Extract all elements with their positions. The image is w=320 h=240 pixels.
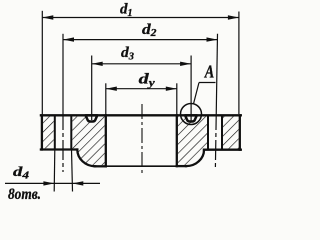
hatching right hub region bbox=[178, 117, 207, 165]
d2 extension / bolt axis left bbox=[62, 34, 64, 110]
right bolt hole walls bbox=[208, 115, 222, 149]
d4 right arrow (points left) bbox=[72, 181, 83, 185]
d3 right arrow bbox=[180, 62, 191, 66]
hub bottom, right bbox=[177, 165, 186, 167]
dy extension right bbox=[176, 83, 178, 114]
leader to A bbox=[194, 83, 216, 104]
d4 extension left bbox=[53, 150, 56, 192]
svg-text:A: A bbox=[204, 62, 214, 82]
svg-text:8отв.: 8отв. bbox=[8, 186, 41, 203]
dy right arrow bbox=[166, 87, 177, 91]
left fillet bbox=[77, 150, 95, 167]
left outer edge bbox=[41, 115, 43, 149]
dimension dy line bbox=[106, 83, 177, 114]
d4 left arrow (points right) bbox=[43, 181, 54, 185]
d3 extension right bbox=[190, 56, 192, 121]
dimension d1 line bbox=[42, 11, 239, 114]
d2 right arrow bbox=[207, 37, 218, 41]
d1 extension left bbox=[41, 11, 43, 114]
hatching right outer ring bbox=[223, 117, 239, 149]
dimension d3 line bbox=[92, 56, 191, 121]
hub bottom, left bbox=[95, 165, 106, 167]
background paper bbox=[0, 0, 248, 205]
d4 extension right bbox=[72, 150, 73, 192]
hatching left hub region bbox=[72, 117, 105, 166]
bore right wall bbox=[176, 115, 178, 166]
bore left wall bbox=[105, 115, 107, 166]
bottom of ring, right bbox=[204, 149, 241, 151]
right outer edge bbox=[239, 115, 241, 149]
d1 extension right bbox=[238, 12, 240, 115]
d2 extension / bolt axis right bbox=[216, 34, 217, 110]
d2 left arrow bbox=[63, 37, 74, 41]
dy left arrow bbox=[106, 87, 117, 91]
top face bbox=[41, 114, 241, 116]
right face groove (detail A) bbox=[185, 115, 197, 121]
dimension d4 line bbox=[5, 150, 100, 192]
flange outline bbox=[41, 115, 241, 166]
bore far-side bottom edge bbox=[106, 165, 177, 167]
hatching left outer ring bbox=[43, 117, 54, 149]
flange axis centerline bbox=[141, 104, 143, 175]
left bolt hole walls bbox=[55, 115, 72, 149]
left face groove (d3) bbox=[86, 115, 98, 121]
d1 right arrow bbox=[228, 15, 239, 19]
right fillet bbox=[186, 150, 204, 166]
bottom of ring, left bbox=[41, 148, 77, 150]
dimension d2 line bbox=[63, 34, 218, 172]
d3 extension left bbox=[91, 56, 93, 121]
detail circle A bbox=[181, 104, 202, 125]
dy extension left bbox=[105, 83, 107, 114]
d3 left arrow bbox=[92, 62, 103, 66]
d1 left arrow bbox=[42, 15, 53, 19]
